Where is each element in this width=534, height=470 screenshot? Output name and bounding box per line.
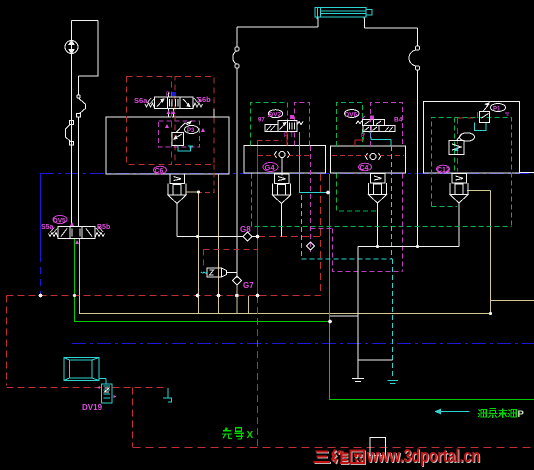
svg-text:S6a: S6a <box>134 96 148 105</box>
svg-text:C4: C4 <box>360 165 369 172</box>
svg-text:P: P <box>518 409 525 420</box>
svg-text:S5a: S5a <box>41 224 54 231</box>
svg-text:G8: G8 <box>240 225 251 234</box>
svg-text:DV5: DV5 <box>53 218 66 225</box>
svg-text:S6b: S6b <box>197 95 211 104</box>
svg-text:C6: C6 <box>155 168 164 175</box>
svg-text:DV19: DV19 <box>82 403 103 412</box>
svg-text:G7: G7 <box>243 281 254 290</box>
svg-text:www.3dportal.cn: www.3dportal.cn <box>366 446 480 466</box>
svg-text:P1: P1 <box>493 107 501 113</box>
svg-text:T: T <box>290 133 294 139</box>
svg-text:B5b: B5b <box>97 224 110 231</box>
svg-text:C12: C12 <box>437 167 450 174</box>
svg-text:X: X <box>247 430 254 441</box>
svg-text:G4: G4 <box>265 163 276 172</box>
svg-text:B4: B4 <box>394 117 403 124</box>
svg-text:P: P <box>166 92 170 98</box>
svg-text:P3: P3 <box>187 128 195 134</box>
svg-text:97: 97 <box>258 118 265 124</box>
svg-text:DV6: DV6 <box>345 111 358 118</box>
